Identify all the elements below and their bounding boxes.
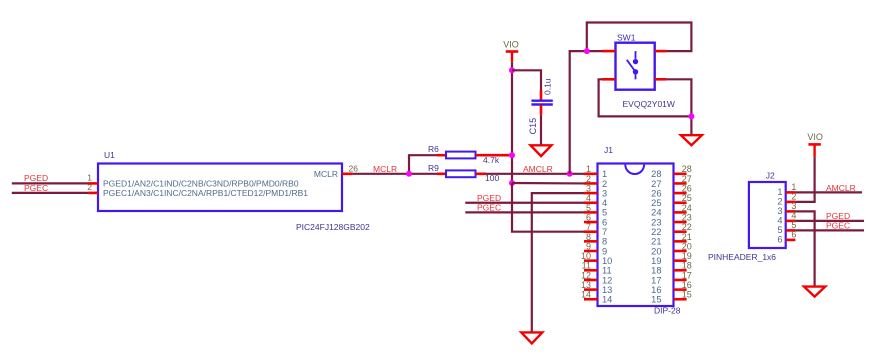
- wire C15 to ground: [540, 115, 542, 145]
- svg-text:14: 14: [602, 295, 612, 305]
- svg-text:26: 26: [682, 184, 692, 194]
- junction AMCLR/SW1 riser: [567, 171, 573, 177]
- svg-text:5: 5: [602, 208, 607, 218]
- wire J1 pin 3 to ground: [532, 193, 584, 332]
- svg-text:U1: U1: [104, 150, 115, 160]
- wire SW1 riser from AMCLR: [570, 51, 602, 174]
- ground below SW1: [681, 135, 702, 145]
- svg-text:24: 24: [682, 203, 692, 213]
- junction SW1 top-left: [584, 48, 590, 54]
- svg-text:J1: J1: [604, 145, 613, 155]
- resistor R6 left lead: [437, 154, 446, 157]
- svg-text:28: 28: [682, 164, 692, 174]
- svg-text:24: 24: [651, 208, 661, 218]
- svg-text:6: 6: [586, 212, 591, 222]
- svg-text:14: 14: [581, 290, 591, 300]
- resistor R6 body: [446, 152, 476, 159]
- svg-text:13: 13: [602, 285, 612, 295]
- wire VIO branch to C15: [512, 70, 541, 90]
- svg-text:12: 12: [602, 275, 612, 285]
- connector J1 body DIP-28: [598, 164, 674, 307]
- svg-text:25: 25: [651, 198, 661, 208]
- svg-text:23: 23: [651, 217, 661, 227]
- junction VIO/J1 pin 2: [509, 180, 515, 186]
- svg-text:27: 27: [651, 179, 661, 189]
- svg-text:15: 15: [651, 295, 661, 305]
- svg-text:R9: R9: [428, 163, 439, 173]
- svg-text:SW1: SW1: [617, 32, 636, 42]
- svg-text:19: 19: [651, 256, 661, 266]
- svg-text:1: 1: [602, 169, 607, 179]
- wire VIO to J2 pin 2: [795, 157, 814, 202]
- ground below J2 pin 3: [804, 287, 825, 297]
- wire PGEC from J2 pin 5: [795, 229, 864, 231]
- switch SW1 body: [616, 43, 655, 90]
- svg-text:9: 9: [602, 246, 607, 256]
- svg-text:VIO: VIO: [503, 39, 519, 49]
- svg-text:2: 2: [777, 197, 782, 207]
- svg-text:17: 17: [651, 275, 661, 285]
- power symbol VIO (top): [506, 50, 518, 53]
- wire VIO to J1 pin 2: [512, 182, 584, 185]
- svg-text:9: 9: [586, 241, 591, 251]
- svg-text:6: 6: [602, 217, 607, 227]
- junction SW1 ground strap: [688, 113, 694, 119]
- svg-text:3: 3: [602, 188, 607, 198]
- svg-text:PGEC: PGEC: [826, 221, 850, 231]
- svg-text:22: 22: [651, 227, 661, 237]
- svg-text:PGED: PGED: [24, 173, 48, 183]
- svg-text:17: 17: [682, 270, 692, 280]
- junction MCLR/R6/R9: [406, 171, 412, 177]
- ground below C15: [531, 145, 552, 156]
- svg-text:PGEC: PGEC: [24, 183, 48, 193]
- svg-text:2: 2: [586, 174, 591, 184]
- svg-text:20: 20: [682, 241, 692, 251]
- svg-text:EVQQ2Y01W: EVQQ2Y01W: [623, 99, 675, 109]
- svg-text:3: 3: [777, 206, 782, 216]
- svg-text:C15: C15: [528, 118, 538, 135]
- svg-text:PINHEADER_1x6: PINHEADER_1x6: [708, 252, 776, 262]
- svg-text:1: 1: [586, 164, 591, 174]
- svg-text:PGEC: PGEC: [477, 203, 501, 213]
- svg-text:MCLR: MCLR: [373, 164, 397, 174]
- wire AMCLR R9 to J1 pin 1: [486, 173, 584, 175]
- svg-text:18: 18: [651, 266, 661, 276]
- svg-text:11: 11: [602, 266, 612, 276]
- svg-text:27: 27: [682, 174, 692, 184]
- connector J2 body PINHEADER_1x6: [749, 182, 786, 248]
- svg-text:25: 25: [682, 193, 692, 203]
- wire PGED to U1 pin 1: [12, 182, 88, 184]
- wire SW1 top loop: [587, 23, 692, 52]
- svg-text:PGED1/AN2/C1IND/C2NB/C3ND/RPB0: PGED1/AN2/C1IND/C2NB/C3ND/RPB0/PMD0/RB0: [103, 179, 299, 189]
- svg-text:15: 15: [682, 290, 692, 300]
- svg-text:13: 13: [581, 280, 591, 290]
- svg-text:R6: R6: [428, 144, 439, 154]
- wire branch up to R6: [409, 155, 437, 174]
- wire J2 pin 3 to ground: [795, 211, 814, 286]
- resistor R6 right lead: [476, 154, 512, 157]
- resistor R9 right lead: [476, 173, 487, 176]
- resistor R9 left lead: [437, 173, 446, 176]
- junction VIO/C15 branch: [509, 67, 515, 73]
- svg-text:PGED: PGED: [477, 193, 501, 203]
- svg-text:5: 5: [777, 225, 782, 235]
- resistor R9 body: [446, 170, 476, 177]
- svg-text:MCLR: MCLR: [314, 169, 338, 179]
- wire SW1 bottom-left strap: [599, 79, 692, 116]
- wire PGEC to J1 pin 5: [465, 211, 584, 213]
- U1 pin 1 stub: [88, 182, 98, 185]
- svg-text:22: 22: [682, 222, 692, 232]
- svg-text:8: 8: [602, 237, 607, 247]
- svg-text:4: 4: [586, 193, 591, 203]
- wire MCLR from U1 pin 26: [353, 173, 437, 175]
- svg-text:7: 7: [586, 222, 591, 232]
- J1 pin stubs: [584, 173, 598, 176]
- svg-text:1: 1: [777, 187, 782, 197]
- svg-text:10: 10: [602, 256, 612, 266]
- svg-text:7: 7: [602, 227, 607, 237]
- capacitor C15 bottom lead: [540, 105, 543, 115]
- svg-text:0.1u: 0.1u: [543, 78, 553, 95]
- svg-text:28: 28: [651, 169, 661, 179]
- mcu U1 body PIC24FJ128GB202: [98, 164, 342, 212]
- svg-text:16: 16: [651, 285, 661, 295]
- svg-text:PGEC1/AN3/C1INC/C2NA/RPB1/CTED: PGEC1/AN3/C1INC/C2NA/RPB1/CTED12/PMD1/RB…: [103, 188, 308, 198]
- svg-text:26: 26: [349, 163, 359, 173]
- switch SW1 pin stubs: [602, 50, 616, 53]
- capacitor C15 plates: [531, 99, 552, 101]
- wire VIO down to J1 pin 7: [512, 183, 584, 232]
- svg-text:21: 21: [682, 232, 692, 242]
- wire PGEC to U1 pin 2: [12, 192, 88, 194]
- ground below J1 pin 3 net: [521, 332, 542, 343]
- U1 pin 2 stub: [88, 192, 98, 195]
- svg-text:12: 12: [581, 270, 591, 280]
- svg-text:4.7k: 4.7k: [483, 155, 500, 165]
- switch SW1 contact glyph: [635, 51, 637, 59]
- svg-text:16: 16: [682, 280, 692, 290]
- svg-text:4: 4: [602, 198, 607, 208]
- svg-text:2: 2: [602, 179, 607, 189]
- wire PGED to J1 pin 4: [465, 202, 584, 204]
- svg-text:11: 11: [582, 261, 591, 271]
- svg-text:26: 26: [651, 188, 661, 198]
- svg-text:AMCLR: AMCLR: [523, 164, 553, 174]
- svg-text:20: 20: [651, 246, 661, 256]
- svg-text:21: 21: [651, 237, 661, 247]
- svg-text:PGED: PGED: [826, 211, 850, 221]
- wire PGED from J2 pin 4: [795, 220, 864, 222]
- svg-text:1: 1: [87, 173, 92, 183]
- svg-text:5: 5: [586, 203, 591, 213]
- svg-text:19: 19: [682, 251, 692, 261]
- svg-text:J2: J2: [766, 171, 775, 181]
- svg-text:18: 18: [682, 261, 692, 271]
- svg-text:3: 3: [586, 184, 591, 194]
- svg-text:1: 1: [791, 182, 796, 192]
- J2 pin stubs: [786, 191, 796, 194]
- svg-text:6: 6: [777, 235, 782, 245]
- svg-text:VIO: VIO: [807, 132, 823, 142]
- U1 pin 26 stub: [342, 173, 353, 176]
- svg-text:23: 23: [682, 212, 692, 222]
- wire VIO rail down: [511, 62, 513, 183]
- wire SW1 bottom-right to ground: [666, 79, 691, 135]
- svg-text:4: 4: [777, 216, 782, 226]
- power symbol VIO (right): [808, 143, 820, 146]
- junction VIO/R6: [509, 152, 515, 158]
- svg-text:10: 10: [581, 251, 591, 261]
- svg-text:8: 8: [586, 232, 591, 242]
- capacitor C15 top lead: [540, 90, 543, 100]
- svg-text:PIC24FJ128GB202: PIC24FJ128GB202: [296, 222, 370, 232]
- wire AMCLR from J2 pin 1: [795, 191, 862, 193]
- svg-text:DIP-28: DIP-28: [654, 305, 681, 315]
